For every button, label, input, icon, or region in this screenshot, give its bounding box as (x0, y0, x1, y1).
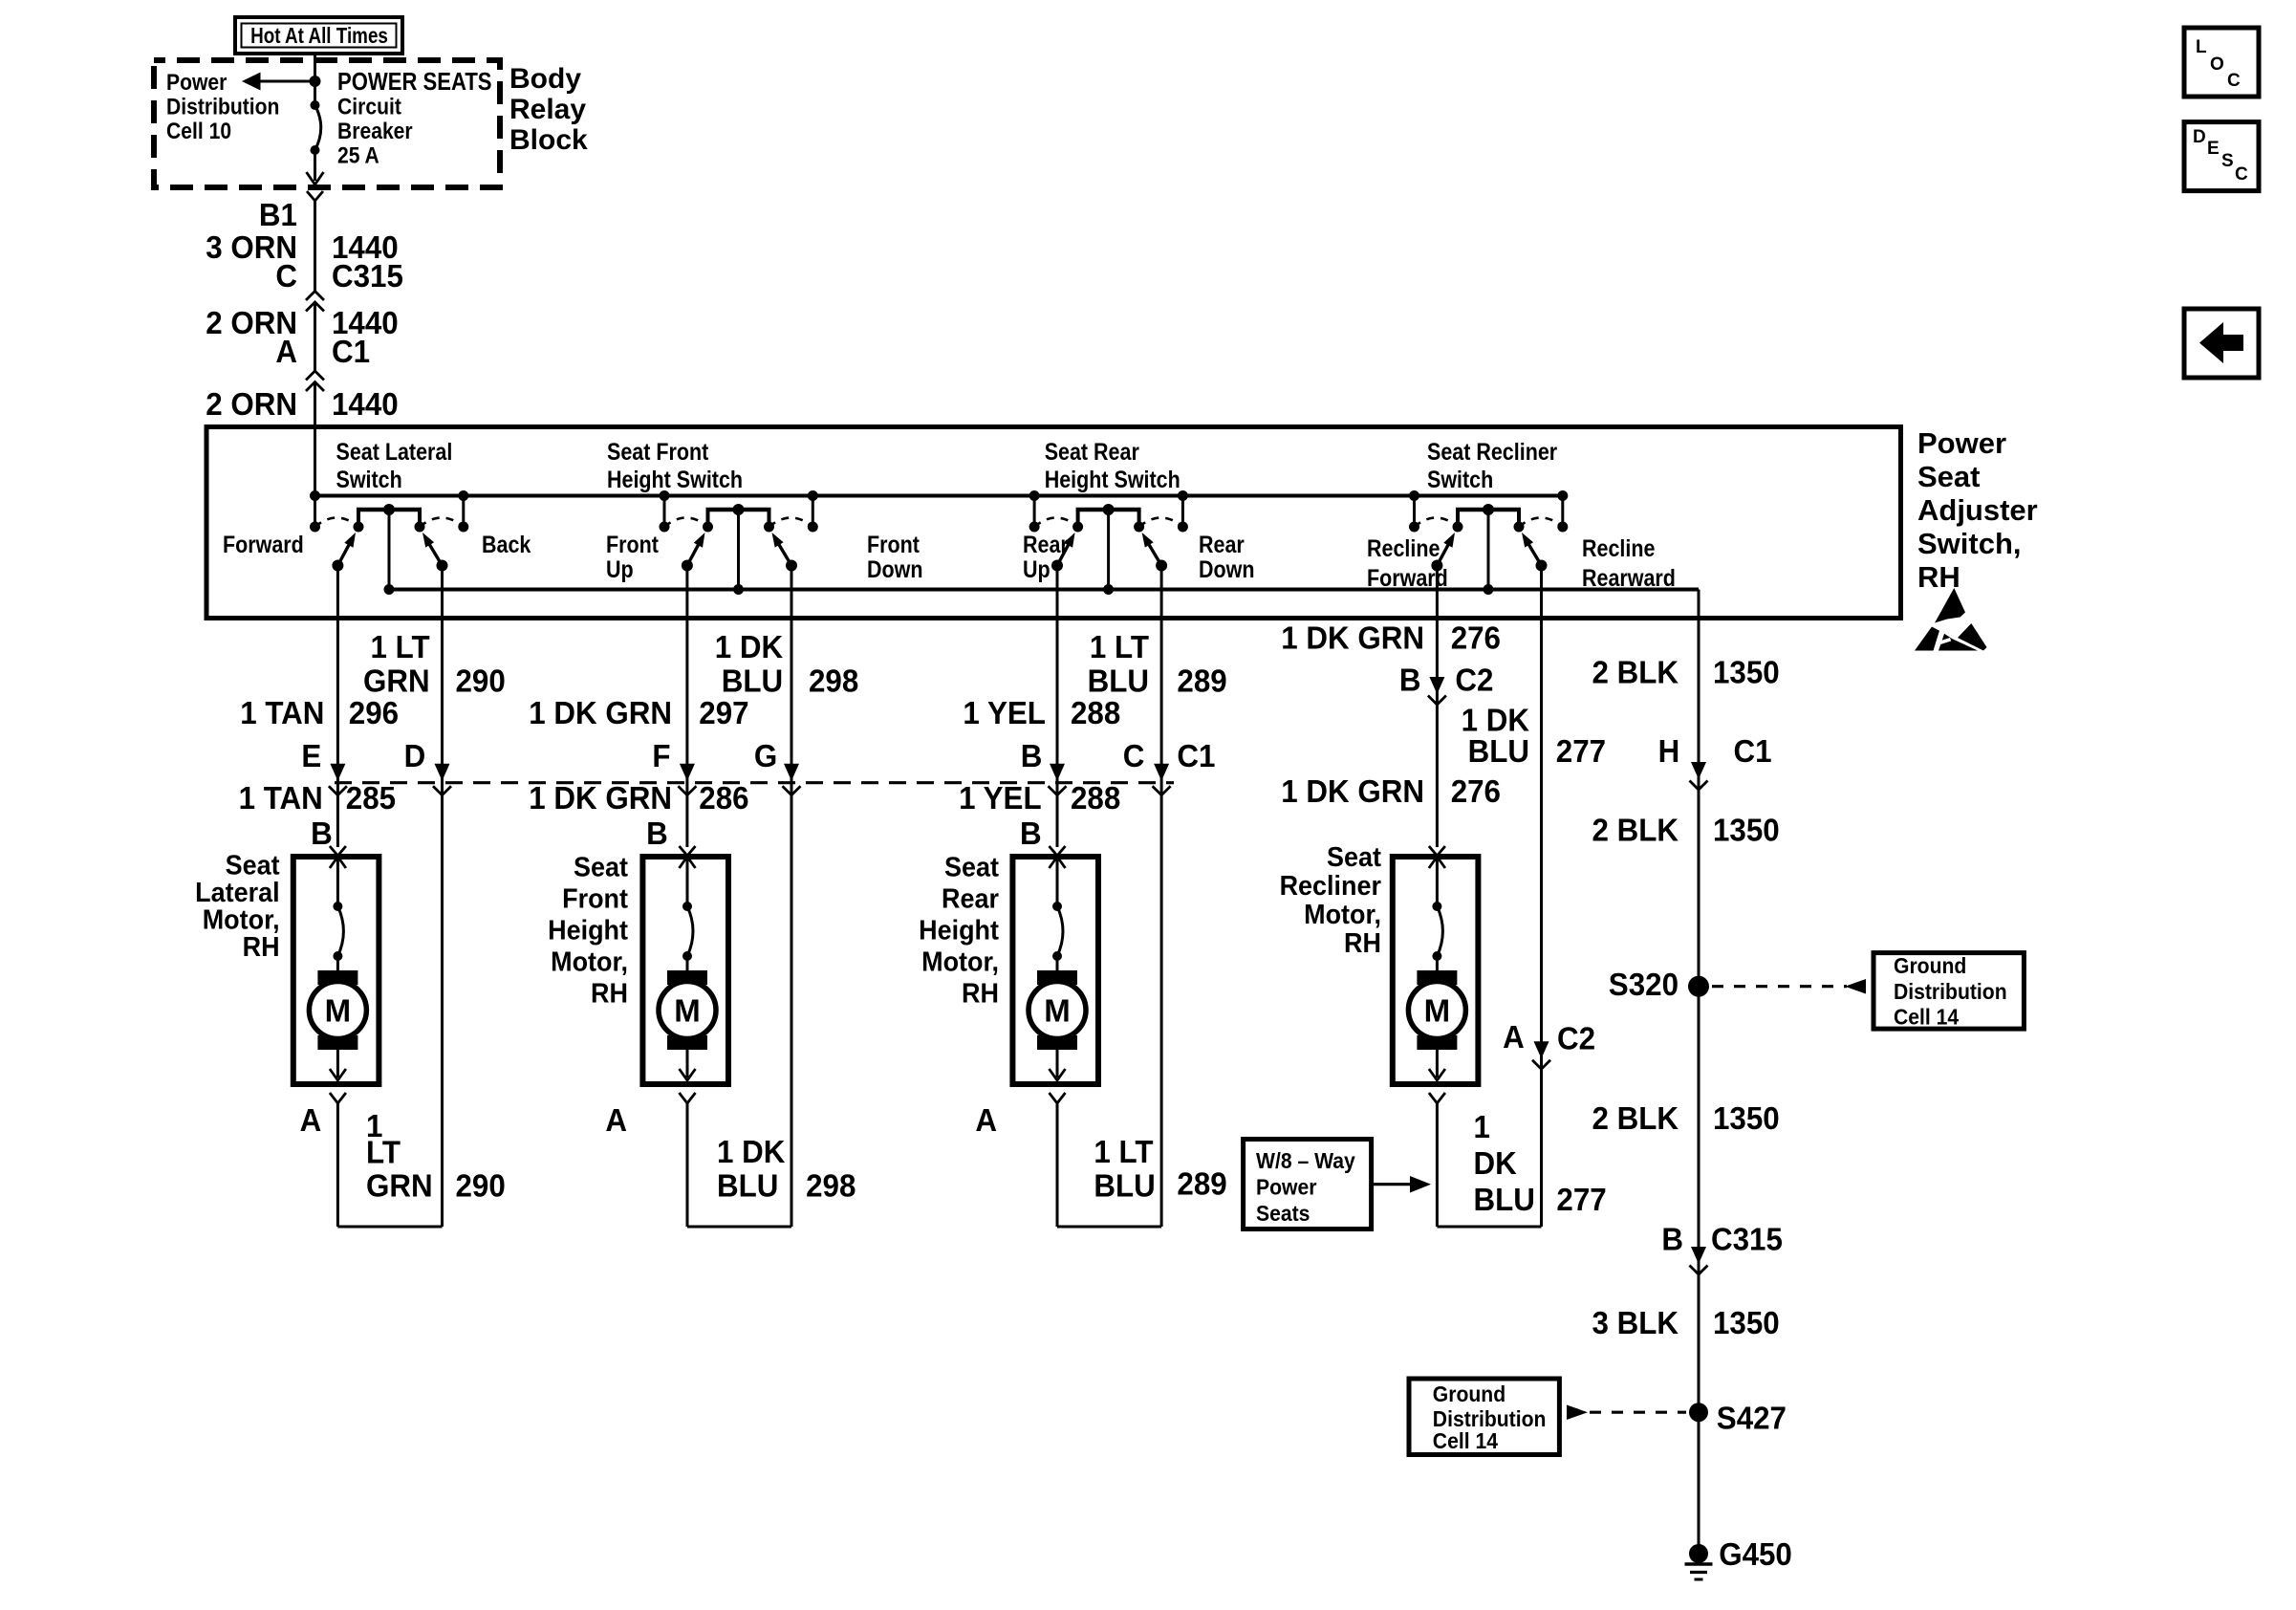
svg-text:O: O (2210, 54, 2224, 75)
svg-text:D: D (2193, 127, 2206, 147)
svg-text:1 TAN: 1 TAN (239, 780, 323, 816)
svg-text:Cell 10: Cell 10 (166, 119, 231, 144)
svg-text:Seat Rear: Seat Rear (1045, 438, 1139, 465)
svg-text:1 DK GRN: 1 DK GRN (1281, 773, 1424, 809)
svg-text:Height: Height (919, 915, 999, 946)
svg-text:Power: Power (1256, 1175, 1317, 1200)
svg-text:Height Switch: Height Switch (607, 466, 743, 492)
svg-text:BLU: BLU (722, 664, 783, 699)
svg-text:Seat Lateral: Seat Lateral (336, 438, 453, 465)
svg-text:Relay: Relay (509, 94, 586, 125)
svg-text:Ground: Ground (1433, 1382, 1505, 1406)
svg-text:Switch: Switch (336, 466, 402, 492)
svg-text:Distribution: Distribution (1894, 979, 2007, 1004)
svg-text:M: M (1424, 993, 1451, 1029)
svg-text:B: B (1020, 816, 1042, 851)
svg-text:RH: RH (591, 978, 628, 1009)
svg-text:GRN: GRN (363, 664, 430, 699)
svg-text:A: A (1503, 1019, 1525, 1055)
svg-text:C1: C1 (1734, 733, 1772, 769)
svg-text:2 BLK: 2 BLK (1592, 813, 1679, 848)
svg-text:2 BLK: 2 BLK (1592, 1100, 1679, 1136)
svg-text:297: 297 (699, 695, 748, 730)
svg-text:289: 289 (1177, 664, 1226, 699)
svg-text:2 BLK: 2 BLK (1592, 655, 1679, 690)
svg-text:288: 288 (1071, 695, 1120, 730)
svg-text:1350: 1350 (1713, 655, 1780, 690)
svg-text:C1: C1 (332, 334, 370, 369)
svg-text:289: 289 (1177, 1166, 1226, 1202)
svg-text:S: S (2221, 151, 2234, 171)
svg-text:Up: Up (606, 555, 634, 582)
svg-text:1 LT: 1 LT (371, 629, 430, 664)
svg-text:BLU: BLU (1094, 1168, 1155, 1204)
svg-text:C2: C2 (1557, 1021, 1595, 1056)
svg-text:276: 276 (1451, 773, 1501, 809)
svg-text:Rearward: Rearward (1582, 564, 1676, 591)
svg-text:G: G (754, 738, 777, 773)
svg-text:Recliner: Recliner (1280, 870, 1382, 901)
svg-text:Circuit: Circuit (337, 94, 401, 120)
svg-text:Front: Front (867, 531, 920, 557)
svg-text:Front: Front (606, 531, 659, 557)
svg-text:A: A (275, 334, 297, 369)
svg-text:DK: DK (1474, 1145, 1517, 1181)
svg-text:Seat: Seat (226, 850, 280, 881)
svg-text:B: B (1021, 738, 1043, 773)
svg-text:25 A: 25 A (337, 142, 379, 168)
svg-text:A: A (300, 1102, 322, 1138)
svg-text:Cell 14: Cell 14 (1433, 1428, 1499, 1453)
svg-text:Power: Power (1917, 426, 2006, 460)
svg-text:1 DK GRN: 1 DK GRN (1281, 620, 1424, 656)
svg-text:1 DK: 1 DK (715, 629, 783, 664)
svg-text:S320: S320 (1609, 967, 1679, 1002)
svg-text:B: B (311, 816, 333, 851)
svg-text:G450: G450 (1719, 1536, 1792, 1572)
svg-text:E: E (2207, 139, 2220, 159)
svg-text:Switch,: Switch, (1917, 527, 2022, 560)
svg-text:Back: Back (482, 531, 531, 557)
svg-text:288: 288 (1071, 780, 1120, 816)
svg-text:POWER SEATS: POWER SEATS (337, 68, 492, 96)
svg-text:B: B (1661, 1222, 1683, 1257)
svg-text:276: 276 (1451, 620, 1501, 656)
svg-text:Seat Front: Seat Front (607, 438, 708, 465)
svg-text:298: 298 (806, 1168, 856, 1204)
svg-text:A: A (975, 1102, 997, 1138)
svg-text:Adjuster: Adjuster (1917, 493, 2038, 527)
svg-text:B: B (646, 816, 668, 851)
svg-text:M: M (674, 993, 701, 1029)
svg-text:A: A (605, 1102, 627, 1138)
svg-text:LT: LT (366, 1135, 401, 1170)
svg-text:Seat Recliner: Seat Recliner (1427, 438, 1557, 465)
svg-text:C315: C315 (332, 258, 403, 294)
svg-text:1350: 1350 (1713, 1100, 1780, 1136)
svg-text:1 LT: 1 LT (1090, 629, 1149, 664)
svg-text:Motor,: Motor, (203, 904, 280, 935)
svg-text:Motor,: Motor, (1304, 899, 1381, 929)
svg-text:Height: Height (548, 915, 628, 946)
svg-text:RH: RH (962, 978, 999, 1009)
svg-text:C2: C2 (1455, 663, 1493, 698)
svg-text:BLU: BLU (1474, 1182, 1535, 1217)
svg-text:H: H (1658, 733, 1680, 769)
svg-text:Breaker: Breaker (337, 119, 413, 144)
svg-text:M: M (1044, 993, 1071, 1029)
svg-text:290: 290 (456, 1168, 506, 1204)
svg-text:C: C (1123, 738, 1145, 773)
svg-text:Recline: Recline (1367, 534, 1440, 561)
svg-text:Body: Body (509, 63, 581, 95)
svg-text:Recline: Recline (1582, 534, 1655, 561)
svg-text:298: 298 (809, 664, 858, 699)
svg-text:BLU: BLU (1468, 733, 1529, 769)
svg-text:1 TAN: 1 TAN (240, 695, 324, 730)
svg-text:Power: Power (166, 70, 227, 96)
svg-text:Rear: Rear (942, 883, 999, 914)
svg-text:Seat: Seat (1917, 460, 1980, 493)
svg-text:C: C (2235, 164, 2248, 185)
svg-text:1: 1 (1474, 1109, 1490, 1144)
svg-text:Forward: Forward (223, 531, 304, 557)
svg-text:Seats: Seats (1256, 1201, 1310, 1226)
svg-text:1440: 1440 (332, 386, 399, 422)
svg-text:1 DK GRN: 1 DK GRN (529, 780, 672, 816)
svg-text:Motor,: Motor, (551, 946, 628, 977)
svg-text:Cell 14: Cell 14 (1894, 1005, 1960, 1030)
svg-text:GRN: GRN (366, 1168, 433, 1204)
svg-text:1 DK GRN: 1 DK GRN (529, 695, 672, 730)
svg-text:B: B (1399, 663, 1421, 698)
svg-text:286: 286 (699, 780, 748, 816)
svg-text:RH: RH (1344, 927, 1381, 958)
svg-text:Motor,: Motor, (921, 946, 999, 977)
svg-text:W/8 – Way: W/8 – Way (1256, 1148, 1355, 1173)
svg-text:BLU: BLU (1088, 664, 1149, 699)
svg-text:L: L (2196, 37, 2207, 57)
svg-text:1 YEL: 1 YEL (963, 695, 1046, 730)
svg-text:Height Switch: Height Switch (1045, 466, 1180, 492)
svg-text:285: 285 (346, 780, 396, 816)
svg-text:290: 290 (456, 664, 506, 699)
svg-text:3 BLK: 3 BLK (1592, 1305, 1679, 1340)
svg-text:S427: S427 (1717, 1401, 1787, 1436)
svg-text:D: D (404, 738, 426, 773)
svg-text:1350: 1350 (1713, 1305, 1780, 1340)
svg-text:277: 277 (1556, 1182, 1606, 1217)
svg-text:Front: Front (562, 883, 628, 914)
svg-text:C: C (275, 258, 297, 294)
svg-text:1 YEL: 1 YEL (959, 780, 1042, 816)
svg-text:Switch: Switch (1427, 466, 1493, 492)
svg-text:C: C (2227, 71, 2241, 91)
svg-text:277: 277 (1556, 733, 1606, 769)
svg-text:Seat: Seat (944, 852, 999, 882)
svg-text:Lateral: Lateral (195, 877, 279, 907)
svg-text:B1: B1 (259, 197, 297, 232)
svg-text:1350: 1350 (1713, 813, 1780, 848)
svg-text:Down: Down (1199, 555, 1254, 582)
svg-text:E: E (301, 738, 321, 773)
svg-text:C1: C1 (1177, 738, 1215, 773)
svg-text:RH: RH (243, 931, 280, 962)
svg-text:Seat: Seat (574, 852, 628, 882)
svg-text:2 ORN: 2 ORN (206, 386, 297, 422)
svg-text:Up: Up (1023, 555, 1051, 582)
svg-text:296: 296 (349, 695, 399, 730)
svg-text:Hot At All Times: Hot At All Times (250, 24, 388, 48)
svg-text:Ground: Ground (1894, 953, 1966, 978)
svg-text:Block: Block (509, 124, 588, 156)
svg-text:Seat: Seat (1327, 841, 1381, 872)
svg-text:Rear: Rear (1023, 531, 1069, 557)
svg-text:M: M (325, 993, 352, 1029)
svg-text:F: F (652, 738, 670, 773)
svg-text:1 DK: 1 DK (717, 1134, 785, 1169)
svg-text:Rear: Rear (1199, 531, 1245, 557)
svg-text:1 LT: 1 LT (1094, 1134, 1153, 1169)
svg-text:Distribution: Distribution (166, 94, 279, 120)
svg-text:BLU: BLU (717, 1168, 778, 1204)
svg-text:Down: Down (867, 555, 922, 582)
svg-text:C315: C315 (1711, 1222, 1783, 1257)
